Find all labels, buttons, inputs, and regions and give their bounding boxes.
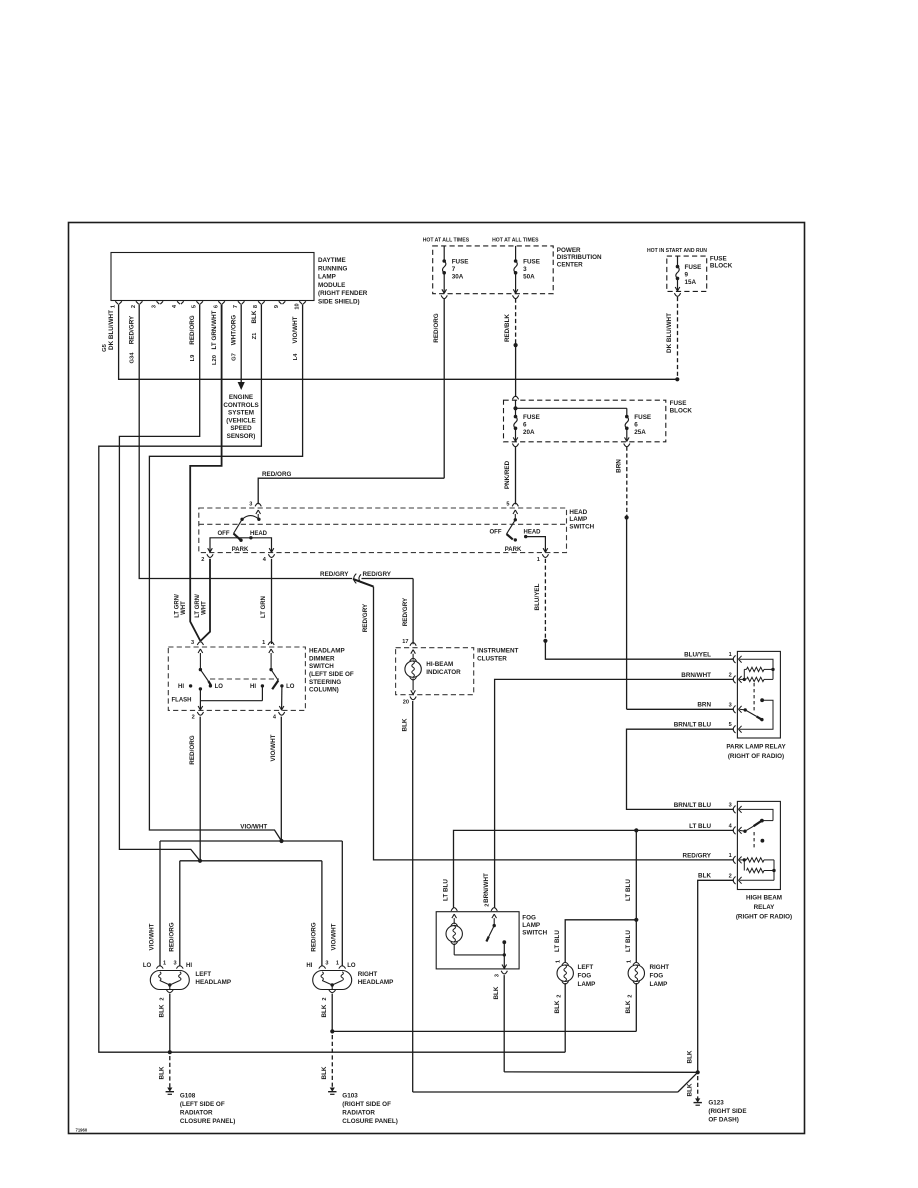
- svg-text:BRN/WHT: BRN/WHT: [681, 672, 711, 679]
- svg-text:6: 6: [634, 421, 638, 428]
- svg-text:VIO/WHT: VIO/WHT: [292, 316, 299, 343]
- svg-text:(LEFT SIDE OF: (LEFT SIDE OF: [309, 671, 354, 678]
- svg-text:LT BLU: LT BLU: [554, 930, 561, 952]
- svg-text:3: 3: [729, 802, 732, 808]
- svg-text:G7: G7: [232, 353, 238, 361]
- svg-text:OFF: OFF: [490, 530, 502, 536]
- svg-text:RED/GRY: RED/GRY: [320, 571, 349, 578]
- svg-text:7: 7: [452, 266, 456, 273]
- svg-text:CLOSURE PANEL): CLOSURE PANEL): [342, 1118, 398, 1125]
- svg-text:RED/GRY: RED/GRY: [363, 571, 392, 578]
- svg-text:1: 1: [627, 960, 633, 963]
- svg-text:2: 2: [159, 997, 165, 1000]
- svg-text:FOG: FOG: [578, 973, 592, 980]
- svg-text:BRN/LT BLU: BRN/LT BLU: [674, 802, 712, 809]
- svg-text:RED/GRY: RED/GRY: [683, 852, 712, 859]
- svg-text:BRN: BRN: [615, 459, 622, 473]
- svg-text:FOG: FOG: [522, 915, 536, 922]
- svg-text:LT BLU: LT BLU: [689, 823, 711, 830]
- svg-text:HI: HI: [306, 963, 312, 969]
- svg-text:LT BLU: LT BLU: [625, 879, 632, 901]
- svg-text:RED/ORG: RED/ORG: [189, 315, 196, 344]
- svg-text:2: 2: [729, 873, 732, 879]
- svg-text:G34: G34: [130, 352, 136, 364]
- svg-text:RED/ORG: RED/ORG: [168, 922, 175, 951]
- svg-text:LT BLU: LT BLU: [442, 879, 449, 901]
- svg-text:PARK: PARK: [232, 547, 249, 553]
- svg-text:HI: HI: [178, 684, 184, 690]
- svg-text:BLK: BLK: [402, 718, 409, 731]
- svg-text:6: 6: [213, 305, 219, 308]
- svg-text:LO: LO: [286, 684, 295, 690]
- svg-text:BLK: BLK: [554, 1000, 561, 1013]
- svg-text:BLK: BLK: [321, 1004, 328, 1017]
- svg-text:VIO/WHT: VIO/WHT: [240, 823, 267, 830]
- svg-text:HI: HI: [250, 684, 256, 690]
- svg-text:RED/ORG: RED/ORG: [262, 471, 291, 478]
- svg-text:LT GRN: LT GRN: [261, 596, 267, 618]
- svg-text:HI: HI: [186, 963, 192, 969]
- svg-text:SENSOR): SENSOR): [227, 433, 256, 440]
- svg-text:6: 6: [523, 421, 527, 428]
- svg-text:BLK: BLK: [625, 1000, 632, 1013]
- svg-text:2: 2: [485, 904, 491, 907]
- svg-text:2: 2: [201, 557, 204, 563]
- svg-text:LT GRN/: LT GRN/: [175, 594, 181, 618]
- svg-text:30A: 30A: [452, 273, 464, 280]
- svg-text:LAMP: LAMP: [522, 922, 540, 929]
- svg-text:COLUMN): COLUMN): [309, 687, 339, 694]
- svg-text:FUSE: FUSE: [523, 414, 540, 421]
- svg-text:OF DASH): OF DASH): [708, 1116, 738, 1123]
- svg-text:BLU/YEL: BLU/YEL: [684, 652, 711, 659]
- svg-text:RED/ORG: RED/ORG: [433, 313, 440, 342]
- svg-text:2: 2: [729, 672, 732, 678]
- svg-text:1: 1: [163, 961, 166, 967]
- svg-text:LEFT: LEFT: [195, 971, 211, 978]
- svg-text:BRN/LT BLU: BRN/LT BLU: [674, 722, 712, 729]
- svg-text:9: 9: [274, 305, 280, 308]
- svg-text:HEAD: HEAD: [250, 531, 268, 537]
- svg-text:RED/ORG: RED/ORG: [311, 922, 318, 951]
- svg-text:(RIGHT OF RADIO): (RIGHT OF RADIO): [736, 913, 792, 920]
- svg-text:5: 5: [192, 305, 198, 308]
- svg-text:BLK: BLK: [158, 1066, 165, 1079]
- svg-text:Z1: Z1: [252, 332, 258, 340]
- svg-text:PARK LAMP RELAY: PARK LAMP RELAY: [726, 744, 786, 751]
- svg-text:SWITCH: SWITCH: [569, 524, 594, 531]
- svg-text:L4: L4: [293, 353, 299, 361]
- svg-text:7: 7: [233, 305, 239, 308]
- svg-text:2: 2: [192, 715, 195, 721]
- svg-text:MODULE: MODULE: [318, 282, 345, 289]
- svg-text:20: 20: [403, 699, 409, 705]
- svg-text:G108: G108: [180, 1093, 196, 1100]
- svg-text:WHT: WHT: [181, 601, 187, 615]
- svg-text:RIGHT: RIGHT: [358, 971, 378, 978]
- svg-text:LAMP: LAMP: [569, 516, 587, 523]
- svg-text:SPEED: SPEED: [230, 425, 252, 432]
- svg-text:20A: 20A: [523, 429, 535, 436]
- svg-text:DIMMER: DIMMER: [309, 655, 335, 662]
- svg-text:ENGINE: ENGINE: [229, 394, 253, 401]
- svg-text:BLK: BLK: [493, 986, 500, 999]
- svg-text:BLOCK: BLOCK: [670, 407, 693, 414]
- svg-text:2: 2: [131, 305, 137, 308]
- svg-text:(RIGHT SIDE OF: (RIGHT SIDE OF: [342, 1101, 391, 1108]
- svg-text:HI-BEAM: HI-BEAM: [426, 661, 453, 668]
- svg-text:G123: G123: [708, 1099, 724, 1106]
- svg-text:SWITCH: SWITCH: [522, 930, 547, 937]
- svg-text:RUNNING: RUNNING: [318, 265, 347, 272]
- svg-text:BLK: BLK: [158, 1004, 165, 1017]
- svg-text:VIO/WHT: VIO/WHT: [331, 923, 338, 950]
- svg-text:RED/GRY: RED/GRY: [402, 597, 409, 626]
- svg-text:RELAY: RELAY: [754, 904, 776, 911]
- svg-text:2: 2: [322, 997, 328, 1000]
- svg-text:3: 3: [249, 501, 252, 507]
- svg-text:HEADLAMP: HEADLAMP: [195, 979, 231, 986]
- svg-text:DK BLU/WHT: DK BLU/WHT: [108, 310, 115, 350]
- svg-text:1: 1: [110, 305, 116, 308]
- svg-text:SIDE SHIELD): SIDE SHIELD): [318, 299, 360, 306]
- svg-text:HEADLAMP: HEADLAMP: [358, 979, 394, 986]
- svg-text:LAMP: LAMP: [578, 981, 596, 988]
- svg-text:BLK: BLK: [686, 1050, 693, 1063]
- svg-text:(RIGHT SIDE: (RIGHT SIDE: [708, 1108, 746, 1115]
- svg-text:BLOCK: BLOCK: [710, 263, 733, 270]
- svg-text:HOT IN START AND RUN: HOT IN START AND RUN: [647, 248, 707, 254]
- svg-text:LT GRN/: LT GRN/: [195, 594, 201, 618]
- svg-text:(VEHICLE: (VEHICLE: [226, 417, 255, 424]
- svg-text:PARK: PARK: [505, 547, 522, 553]
- svg-text:3: 3: [152, 305, 158, 308]
- svg-text:3: 3: [494, 974, 500, 977]
- svg-text:L20: L20: [212, 355, 218, 365]
- svg-text:1: 1: [556, 960, 562, 963]
- svg-text:1: 1: [262, 640, 265, 646]
- svg-text:1: 1: [336, 961, 339, 967]
- svg-text:FUSE: FUSE: [452, 258, 469, 265]
- svg-text:10: 10: [294, 303, 300, 309]
- svg-text:CENTER: CENTER: [557, 262, 583, 269]
- svg-text:25A: 25A: [634, 429, 646, 436]
- svg-text:WHT: WHT: [201, 601, 207, 615]
- svg-text:(RIGHT OF RADIO): (RIGHT OF RADIO): [728, 753, 784, 760]
- svg-text:LAMP: LAMP: [650, 981, 668, 988]
- svg-text:2: 2: [627, 995, 633, 998]
- svg-text:3: 3: [325, 961, 328, 967]
- svg-text:8: 8: [253, 305, 259, 308]
- svg-text:HOT AT ALL TIMES: HOT AT ALL TIMES: [423, 238, 470, 244]
- svg-text:FUSE: FUSE: [634, 414, 651, 421]
- svg-text:INSTRUMENT: INSTRUMENT: [477, 648, 518, 655]
- svg-text:LT GRN/WHT: LT GRN/WHT: [211, 310, 218, 349]
- svg-text:3: 3: [191, 640, 194, 646]
- svg-text:1: 1: [537, 557, 540, 563]
- svg-text:G5: G5: [102, 343, 108, 352]
- svg-text:RED/GRY: RED/GRY: [129, 315, 136, 344]
- svg-text:HOT AT ALL TIMES: HOT AT ALL TIMES: [492, 238, 539, 244]
- svg-text:HIGH BEAM: HIGH BEAM: [746, 895, 782, 902]
- svg-text:DK BLU/WHT: DK BLU/WHT: [666, 313, 673, 353]
- svg-text:HEADLAMP: HEADLAMP: [309, 647, 345, 654]
- svg-text:RADIATOR: RADIATOR: [180, 1110, 213, 1117]
- svg-text:WHT/ORG: WHT/ORG: [231, 315, 238, 346]
- svg-text:15A: 15A: [685, 279, 697, 286]
- svg-text:LO: LO: [143, 963, 152, 969]
- svg-text:FLASH: FLASH: [172, 697, 192, 703]
- svg-text:BRN/WHT: BRN/WHT: [483, 873, 490, 903]
- svg-text:BLU/YEL: BLU/YEL: [534, 583, 541, 610]
- svg-text:50A: 50A: [523, 273, 535, 280]
- svg-text:3: 3: [523, 266, 527, 273]
- svg-text:5: 5: [729, 722, 732, 728]
- svg-text:VIO/WHT: VIO/WHT: [148, 923, 155, 950]
- svg-text:(LEFT SIDE OF: (LEFT SIDE OF: [180, 1101, 225, 1108]
- svg-text:PNK/RED: PNK/RED: [504, 460, 511, 489]
- svg-text:RIGHT: RIGHT: [650, 964, 670, 971]
- svg-text:LT BLU: LT BLU: [625, 930, 632, 952]
- svg-text:RED/GRY: RED/GRY: [362, 603, 369, 632]
- svg-text:RED/BLK: RED/BLK: [504, 314, 511, 342]
- svg-text:INDICATOR: INDICATOR: [426, 669, 461, 676]
- svg-text:HEAD: HEAD: [523, 530, 541, 536]
- svg-text:STEERING: STEERING: [309, 679, 341, 686]
- svg-text:BLK: BLK: [251, 310, 258, 323]
- svg-text:L9: L9: [190, 354, 196, 362]
- svg-text:(RIGHT FENDER: (RIGHT FENDER: [318, 290, 368, 297]
- svg-text:LO: LO: [347, 963, 356, 969]
- svg-text:LO: LO: [215, 684, 224, 690]
- svg-text:POWER: POWER: [557, 247, 581, 254]
- svg-text:OFF: OFF: [218, 531, 230, 537]
- svg-text:1: 1: [729, 652, 732, 658]
- svg-text:3: 3: [729, 702, 732, 708]
- svg-text:FUSE: FUSE: [523, 258, 540, 265]
- svg-text:LAMP: LAMP: [318, 274, 336, 281]
- svg-text:BLK: BLK: [686, 1083, 693, 1096]
- svg-text:RADIATOR: RADIATOR: [342, 1110, 375, 1117]
- svg-text:1: 1: [729, 853, 732, 859]
- svg-text:LEFT: LEFT: [578, 964, 594, 971]
- svg-text:RED/ORG: RED/ORG: [189, 735, 196, 764]
- svg-text:BLK: BLK: [698, 873, 711, 880]
- svg-text:DISTRIBUTION: DISTRIBUTION: [557, 254, 602, 261]
- svg-text:BRN: BRN: [697, 702, 711, 709]
- svg-text:FOG: FOG: [650, 973, 664, 980]
- svg-text:FUSE: FUSE: [685, 264, 702, 271]
- svg-text:DAYTIME: DAYTIME: [318, 257, 346, 264]
- svg-text:CLOSURE PANEL): CLOSURE PANEL): [180, 1118, 236, 1125]
- svg-text:17: 17: [402, 639, 408, 645]
- svg-text:CLUSTER: CLUSTER: [477, 655, 507, 662]
- svg-text:CONTROLS: CONTROLS: [223, 402, 258, 409]
- svg-text:FUSE: FUSE: [670, 400, 687, 407]
- svg-text:VIO/WHT: VIO/WHT: [270, 734, 277, 761]
- svg-text:5: 5: [506, 501, 509, 507]
- svg-text:71960: 71960: [76, 1128, 88, 1133]
- svg-text:9: 9: [685, 271, 689, 278]
- svg-text:2: 2: [556, 995, 562, 998]
- svg-text:G103: G103: [342, 1093, 358, 1100]
- svg-text:SYSTEM: SYSTEM: [228, 410, 254, 417]
- svg-text:SWITCH: SWITCH: [309, 663, 334, 670]
- svg-text:3: 3: [173, 961, 176, 967]
- svg-text:BLK: BLK: [321, 1066, 328, 1079]
- svg-text:HEAD: HEAD: [569, 509, 587, 516]
